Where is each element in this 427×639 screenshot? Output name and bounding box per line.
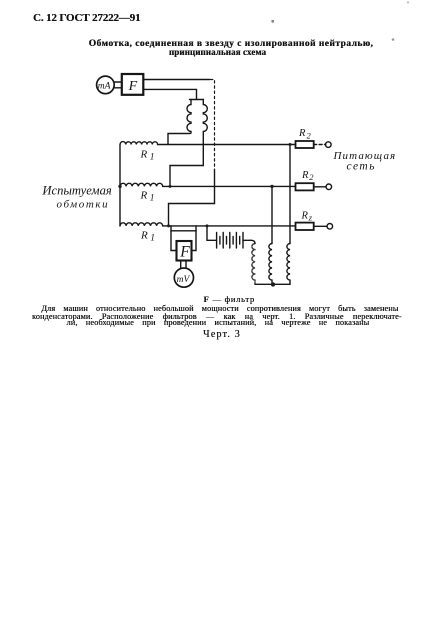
- svg-text:обмотки: обмотки: [57, 198, 110, 210]
- svg-text:R: R: [140, 229, 148, 241]
- svg-text:z: z: [308, 213, 313, 223]
- svg-text:R: R: [301, 211, 309, 222]
- svg-text:F: F: [179, 243, 190, 260]
- svg-text:сеть: сеть: [347, 161, 376, 173]
- svg-text:2: 2: [309, 172, 314, 182]
- svg-text:R: R: [301, 170, 309, 181]
- svg-text:1: 1: [150, 194, 155, 204]
- svg-text:1: 1: [150, 233, 155, 243]
- svg-text:mA: mA: [98, 81, 111, 91]
- svg-text:R: R: [140, 190, 148, 202]
- svg-text:1: 1: [150, 153, 155, 163]
- svg-text:Испытуемая: Испытуемая: [41, 184, 111, 198]
- svg-text:mV: mV: [177, 275, 191, 285]
- svg-text:F: F: [128, 79, 138, 94]
- svg-text:R: R: [140, 148, 148, 160]
- svg-text:R: R: [298, 128, 306, 139]
- svg-text:2: 2: [307, 131, 312, 141]
